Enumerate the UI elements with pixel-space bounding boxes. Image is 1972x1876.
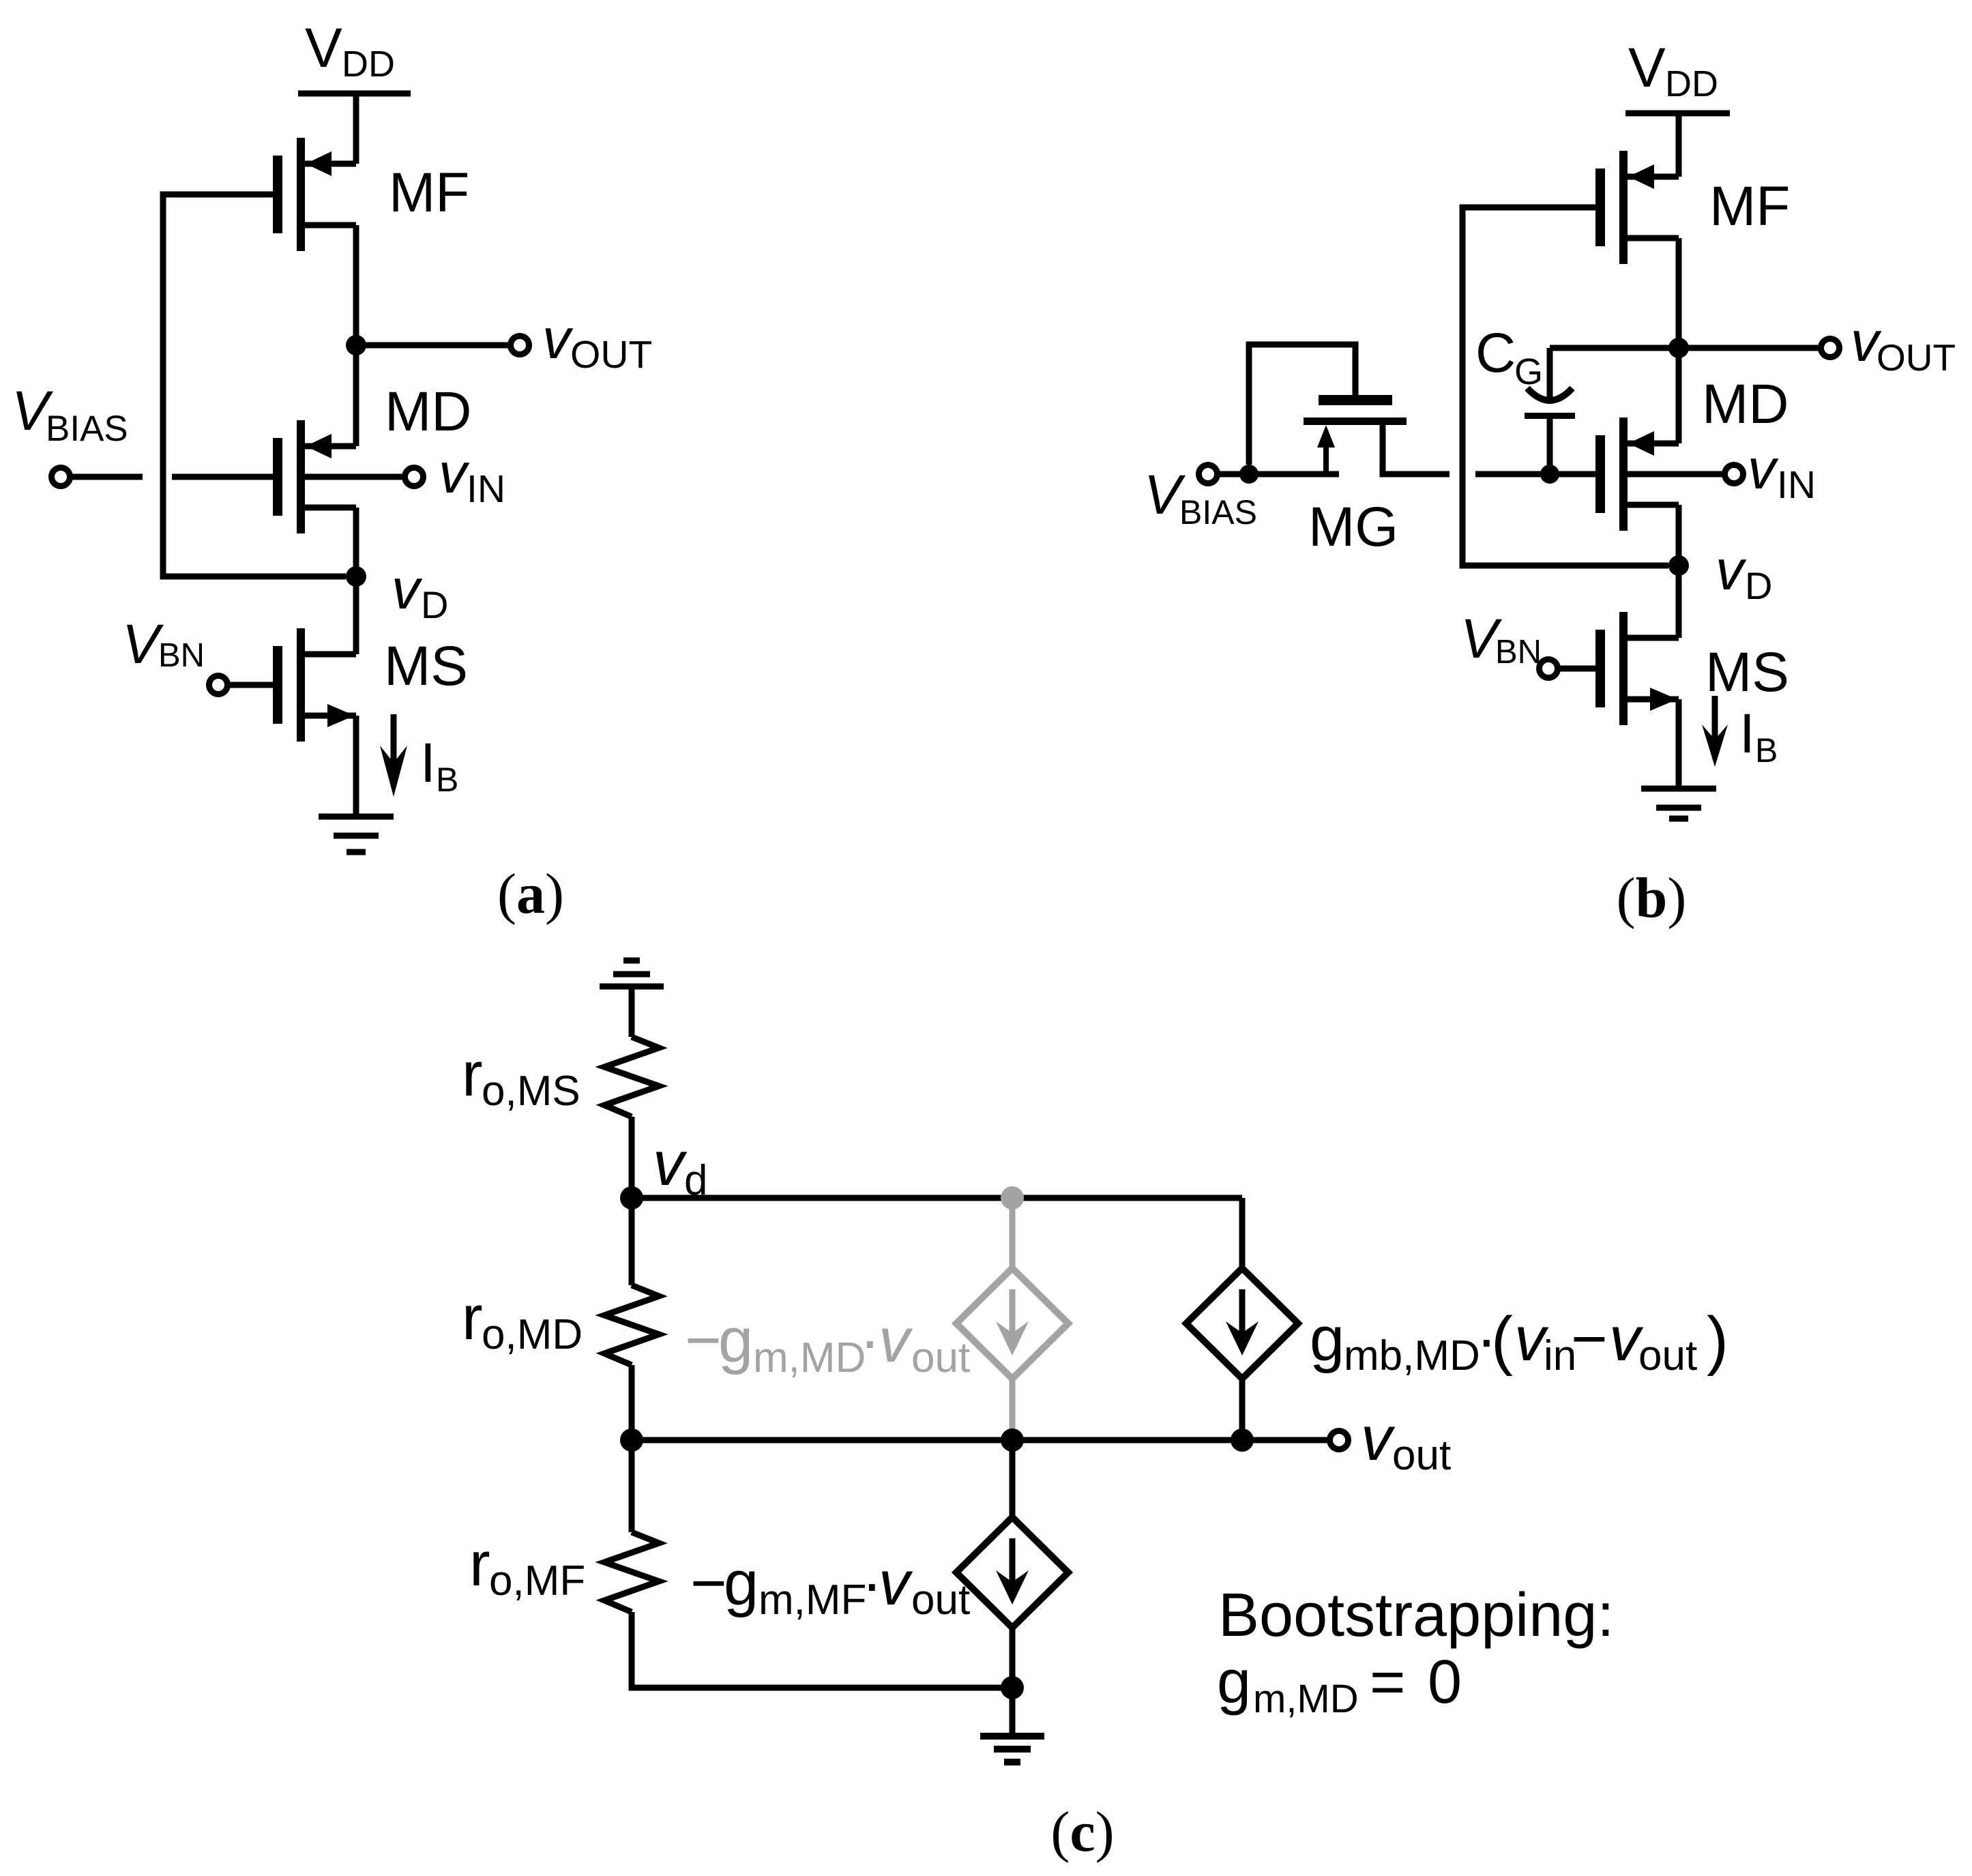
wire supply to roMS (c) <box>629 986 635 1037</box>
svg-text:·: · <box>859 1306 881 1375</box>
svg-text:BIAS: BIAS <box>46 409 128 449</box>
node vd (c) <box>620 1186 643 1210</box>
svg-text:BIAS: BIAS <box>1179 493 1257 531</box>
supply rail symbol (c) <box>600 958 664 990</box>
dependent source gmMF top lead (c) <box>1010 1440 1016 1517</box>
ground (c) <box>980 1733 1044 1765</box>
wire roMS to vd node (c) <box>629 1117 635 1198</box>
svg-text:MG: MG <box>1308 496 1398 558</box>
terminal vIN (b) <box>1725 465 1743 484</box>
svg-text:MF: MF <box>389 162 469 224</box>
svg-text:I: I <box>1739 703 1755 765</box>
wire MF gate long loop to vD (b) <box>1462 207 1668 566</box>
ground (a) <box>319 814 394 855</box>
gray dot on vd line (c) <box>1001 1186 1024 1210</box>
terminal vout (c) <box>1330 1431 1349 1450</box>
svg-text:MS: MS <box>1705 641 1789 703</box>
svg-text:Bootstrapping:: Bootstrapping: <box>1218 1581 1614 1650</box>
wire gmb source to vout line (c) <box>1239 1379 1246 1440</box>
bulk lead MD to vIN (a) <box>305 474 404 480</box>
svg-text:MS: MS <box>384 635 468 697</box>
wire VBIAS to MG bulk (b) <box>1218 471 1339 478</box>
node vout right (c) <box>1231 1428 1254 1452</box>
svg-text:−: − <box>685 1306 722 1375</box>
wire MG source lead down (b) <box>1383 425 1449 474</box>
wire vOUT node to MD source (b) <box>1676 348 1682 443</box>
transistor MS (a) <box>273 628 356 742</box>
node vD (b) <box>1668 555 1689 576</box>
node ground (c) <box>1001 1676 1024 1699</box>
gray dependent source gmMD (c) <box>956 1268 1068 1379</box>
transistor MD bulk-driven (b) <box>1595 417 1679 531</box>
svg-text:out: out <box>1638 1332 1697 1379</box>
svg-text:v: v <box>439 441 470 505</box>
node MG gate to VBIAS (b) <box>1239 465 1259 484</box>
resistor roMD (c) <box>604 1285 659 1365</box>
wire vd line (c) <box>632 1195 1242 1201</box>
wire MG gate loop (b) <box>1249 345 1355 465</box>
wire vOUT node to terminal (b) <box>1679 345 1821 351</box>
wire MF drain to vOUT node (a) <box>353 225 359 345</box>
svg-text:BN: BN <box>158 637 205 674</box>
capacitor CG top lead (b) <box>1547 348 1553 400</box>
svg-text:mb,MD: mb,MD <box>1344 1332 1480 1379</box>
svg-text:g: g <box>724 1549 759 1618</box>
svg-text:g: g <box>1310 1304 1344 1374</box>
transistor MG mos-cap (b) <box>1319 395 1392 405</box>
ground (b) <box>1641 786 1716 822</box>
wire vD node to MS drain (a) <box>353 576 359 654</box>
wire vOUT node to MD source (a) <box>353 345 359 446</box>
terminal vOUT (b) <box>1821 339 1840 357</box>
wire vout line (c) <box>632 1437 1329 1443</box>
node vOUT (a) <box>346 335 366 355</box>
svg-text:MD: MD <box>385 381 472 443</box>
svg-text:MD: MD <box>1702 373 1789 435</box>
dependent source gmbMD (c) <box>1186 1268 1298 1379</box>
terminal vOUT (a) <box>511 336 529 355</box>
svg-text:=: = <box>1370 1648 1406 1716</box>
svg-text:BN: BN <box>1495 634 1542 671</box>
capacitor CG curved plate (b) <box>1527 388 1572 400</box>
bulk lead MD to vIN (b) <box>1628 471 1724 478</box>
svg-text:V: V <box>305 17 342 79</box>
svg-text:v: v <box>653 1129 688 1199</box>
wire vd line corner to gmb source (c) <box>1239 1198 1246 1269</box>
wire MD drain to vD node (b) <box>1676 505 1682 566</box>
svg-text:g: g <box>1217 1648 1251 1716</box>
wire roMD to vout node (c) <box>629 1365 635 1440</box>
svg-text:G: G <box>1514 351 1543 392</box>
svg-text:(a): (a) <box>497 862 564 926</box>
gray source bottom lead (c) <box>1010 1379 1016 1440</box>
svg-text:v: v <box>1748 437 1779 501</box>
dependent source gmMF bottom lead (c) <box>1010 1628 1016 1688</box>
svg-text:out: out <box>1392 1432 1451 1479</box>
svg-text:m,MD: m,MD <box>1253 1677 1359 1721</box>
wire VBN to MS gate (a) <box>228 682 273 688</box>
svg-text:C: C <box>1475 322 1516 384</box>
svg-text:OUT: OUT <box>570 333 652 377</box>
svg-text:B: B <box>1755 731 1778 770</box>
svg-text:m,MD: m,MD <box>753 1334 866 1381</box>
svg-text:g: g <box>718 1306 753 1375</box>
svg-text:0: 0 <box>1428 1648 1462 1716</box>
dependent source gmMF (c) <box>956 1517 1068 1628</box>
VDD rail (b) <box>1625 111 1730 117</box>
svg-text:V: V <box>1628 37 1666 99</box>
svg-text:m,MF: m,MF <box>759 1577 866 1624</box>
svg-text:DD: DD <box>342 44 395 85</box>
node vD (a) <box>346 566 366 587</box>
svg-text:−: − <box>690 1549 727 1618</box>
ground stem (c) <box>1010 1688 1016 1736</box>
wire vout to roMF (c) <box>629 1440 635 1532</box>
svg-text:r: r <box>469 1529 490 1599</box>
resistor roMF (c) <box>604 1532 659 1612</box>
wire vOUT node to terminal (a) <box>356 342 510 349</box>
svg-text:D: D <box>421 583 448 626</box>
wire roMF to bottom rail (c) <box>632 1612 1012 1688</box>
wire vD node to MS drain (b) <box>1676 566 1682 638</box>
svg-text:I: I <box>420 732 436 794</box>
transistor MD bulk-driven (a) <box>273 420 356 533</box>
transistor MF (b) <box>1595 151 1679 264</box>
svg-text:r: r <box>462 1283 483 1353</box>
wire MF gate to node vD (a) <box>163 194 346 576</box>
wire VDD to MF source (b) <box>1676 113 1682 177</box>
wire MG to MD gate (b) <box>1475 471 1595 478</box>
node vOUT (b) <box>1668 338 1689 358</box>
svg-text:out: out <box>911 1334 970 1381</box>
svg-text:B: B <box>436 761 458 799</box>
svg-text:): ) <box>1707 1304 1728 1377</box>
transistor MF (a) <box>273 138 356 251</box>
svg-text:IN: IN <box>467 467 505 511</box>
svg-text:(: ( <box>1491 1304 1513 1377</box>
wire VBIAS to crossing (a) <box>70 474 143 480</box>
node vout mid (c) <box>1001 1428 1024 1452</box>
svg-text:−: − <box>1571 1304 1608 1374</box>
capacitor CG bottom plate (b) <box>1525 413 1575 419</box>
svg-text:OUT: OUT <box>1877 336 1956 379</box>
current IB arrow (a) <box>391 714 397 767</box>
transistor MS (b) <box>1595 612 1679 725</box>
gray source top lead (c) <box>1010 1198 1016 1269</box>
svg-text:IN: IN <box>1777 463 1816 507</box>
svg-text:v: v <box>879 1306 913 1375</box>
svg-text:v: v <box>879 1549 913 1618</box>
svg-text:D: D <box>1745 564 1772 607</box>
node vout left (c) <box>620 1428 643 1452</box>
svg-text:r: r <box>462 1040 483 1109</box>
svg-text:v: v <box>1716 538 1747 602</box>
svg-text:v: v <box>542 307 574 370</box>
svg-text:out: out <box>911 1577 970 1624</box>
capacitor CG bottom lead (b) <box>1547 415 1553 474</box>
wire vOUT to CG top (b) <box>1550 345 1679 351</box>
wire VDD to MF source (a) <box>353 93 359 164</box>
terminal VBIAS (b) <box>1199 465 1218 484</box>
terminal VBN (b) <box>1540 660 1558 678</box>
svg-text:o,MD: o,MD <box>482 1311 583 1358</box>
resistor roMS (c) <box>604 1037 659 1117</box>
terminal VBN (a) <box>209 676 228 694</box>
svg-text:DD: DD <box>1665 63 1718 104</box>
wire MS source to ground (b) <box>1676 699 1682 789</box>
svg-text:(c): (c) <box>1050 1800 1114 1864</box>
VDD rail (a) <box>298 91 411 97</box>
wire MD drain to vD node (a) <box>353 508 359 576</box>
svg-text:(b): (b) <box>1617 866 1687 930</box>
wire MS source to ground (a) <box>353 716 359 817</box>
svg-text:MF: MF <box>1709 175 1790 237</box>
wire MF drain to vOUT node (b) <box>1676 238 1682 348</box>
svg-text:o,MF: o,MF <box>489 1557 585 1604</box>
wire VBN to MS gate (b) <box>1558 666 1595 672</box>
node CG on MD gate wire (b) <box>1540 465 1559 484</box>
terminal vIN (a) <box>405 468 424 486</box>
svg-text:o,MS: o,MS <box>482 1068 580 1115</box>
svg-text:v: v <box>1361 1404 1396 1474</box>
terminal VBIAS (a) <box>52 468 70 486</box>
MG bulk arrow (b) <box>1323 445 1329 474</box>
current IB arrow (b) <box>1712 696 1718 744</box>
wire crossing to MD gate (a) <box>172 474 273 480</box>
svg-text:v: v <box>392 557 423 621</box>
wire vd to roMD (c) <box>629 1198 635 1285</box>
